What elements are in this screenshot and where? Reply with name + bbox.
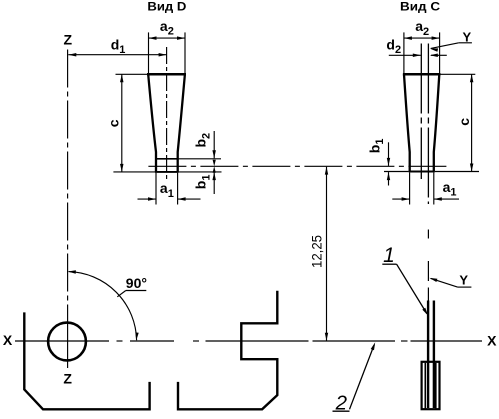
X axis (horizontal dash-dot) xyxy=(15,340,482,342)
svg-text:Z: Z xyxy=(64,31,73,47)
dimension a1 (view D) xyxy=(138,180,201,201)
svg-text:Z: Z xyxy=(63,371,72,387)
view C c top extension line xyxy=(441,73,476,75)
90 degree angle arc xyxy=(68,270,139,340)
dimension d1 xyxy=(68,36,166,56)
view C a1 extension lines xyxy=(410,173,434,205)
dimension 12,25 xyxy=(309,167,328,341)
Y label bottom with leader xyxy=(429,272,471,287)
svg-text:Вид C: Вид C xyxy=(400,2,440,14)
dimension a2 (view C) xyxy=(404,18,440,40)
middle part stepped outline xyxy=(178,291,277,410)
view D contact outline xyxy=(147,74,186,172)
dimension b1 (view D) xyxy=(193,160,216,194)
blade socket box xyxy=(422,362,440,409)
label 2 with leader xyxy=(333,342,376,414)
blade left line xyxy=(427,301,429,409)
svg-text:X: X xyxy=(3,332,13,348)
view C bottom tip line xyxy=(384,171,479,173)
Z axis (vertical dash-dot) xyxy=(67,50,69,369)
view D a2 extension lines xyxy=(149,32,186,73)
svg-text:c: c xyxy=(456,118,472,126)
lower-left part outline xyxy=(24,312,149,409)
view C a2 extension lines xyxy=(404,32,440,74)
view D tip bottom line xyxy=(113,171,221,173)
90 degree label and leader xyxy=(117,275,147,297)
view C title xyxy=(400,2,440,14)
view D tip upper line xyxy=(155,158,221,160)
dimension a1 (view C) xyxy=(392,179,459,201)
svg-text:12,25: 12,25 xyxy=(309,235,324,268)
view D a1 extension lines xyxy=(156,173,178,205)
horizontal centerline through contact tips xyxy=(148,165,447,167)
dimension a2 (view D) xyxy=(149,18,186,40)
svg-text:X: X xyxy=(487,332,497,348)
svg-text:c: c xyxy=(106,119,122,127)
Y axis line through view C xyxy=(427,44,429,205)
dimension b1 (view C) xyxy=(366,139,390,186)
view D c top extension line xyxy=(116,73,148,75)
dimension d2 (view C) xyxy=(386,36,446,57)
dimension c (view C) xyxy=(456,74,473,171)
blade right line xyxy=(433,301,435,409)
X axis label right xyxy=(487,332,497,348)
Y label top with leader xyxy=(430,30,472,52)
label 1 with leader xyxy=(382,244,428,316)
dimension b2 (view D) xyxy=(193,131,216,173)
Z axis label top xyxy=(64,31,73,47)
hole circle on X-Z intersection xyxy=(48,323,86,361)
svg-text:Y: Y xyxy=(459,272,468,287)
X axis label left xyxy=(3,332,13,348)
Y axis segments below view C xyxy=(427,230,429,301)
view D vertical centerline xyxy=(166,47,168,179)
svg-text:90°: 90° xyxy=(126,275,147,291)
svg-text:Вид D: Вид D xyxy=(147,2,186,14)
view D title xyxy=(147,2,186,14)
svg-text:1: 1 xyxy=(383,244,395,267)
dimension c (view D) xyxy=(106,74,124,172)
view C inner centerline xyxy=(420,44,422,180)
Z axis label bottom xyxy=(63,371,72,387)
view C contact outline xyxy=(403,74,441,171)
